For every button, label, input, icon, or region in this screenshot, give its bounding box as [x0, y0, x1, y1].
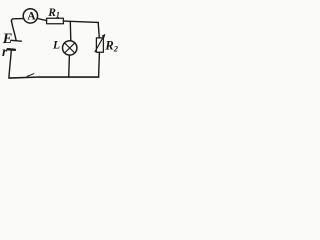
- rheostat R2: [96, 38, 103, 52]
- lamp L: [62, 41, 76, 55]
- rheostat arrow: [95, 35, 104, 52]
- wire top-left corner to ammeter: [11, 19, 23, 22]
- wire R1 to top-right corner: [63, 21, 98, 22]
- battery E long plate: [11, 39, 21, 42]
- current arrow on bottom wire: [27, 74, 34, 77]
- wire bottom: [9, 77, 99, 78]
- wire right frame lower: [98, 52, 101, 77]
- resistor R1: [47, 18, 64, 24]
- wire lamp bottom to bottom wire: [68, 55, 71, 77]
- wire bottom-left corner up to battery minus: [9, 50, 11, 77]
- svg-text:A: A: [27, 11, 36, 23]
- node junction lamp branch: [69, 22, 72, 41]
- battery E short plate: [8, 48, 15, 51]
- svg-text:L: L: [52, 40, 60, 52]
- wire right frame upper: [98, 22, 99, 38]
- wire left frame upper (corner down to battery): [12, 21, 17, 41]
- ammeter A: [23, 9, 37, 23]
- wire ammeter to R1: [38, 19, 47, 21]
- svg-text:r: r: [2, 44, 8, 59]
